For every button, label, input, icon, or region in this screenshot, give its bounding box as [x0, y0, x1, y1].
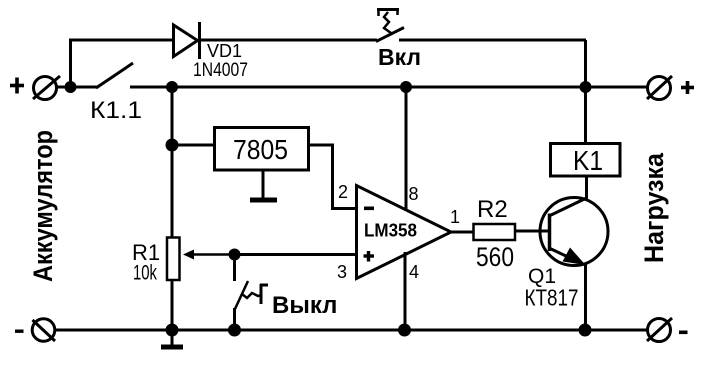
node emitter rail — [579, 324, 592, 337]
svg-text:K1: K1 — [573, 145, 603, 176]
wire right riser down to + rail — [584, 40, 587, 87]
label + right — [686, 81, 690, 94]
svg-text:10k: 10k — [133, 262, 157, 285]
resistor R2 — [474, 224, 516, 240]
svg-text:3: 3 — [337, 262, 347, 282]
svg-text:Вкл: Вкл — [378, 44, 421, 70]
svg-text:2: 2 — [338, 182, 348, 202]
svg-text:Выкл: Выкл — [272, 292, 337, 319]
svg-text:8: 8 — [409, 184, 419, 204]
svg-text:К1.1: К1.1 — [90, 97, 142, 124]
node left column — [166, 81, 178, 93]
svg-text:7805: 7805 — [233, 134, 288, 165]
node at left terminal — [65, 81, 77, 93]
ground (bottom) — [161, 330, 183, 347]
ground (7805) — [250, 170, 277, 200]
potentiometer R1 — [167, 238, 234, 281]
wire top-left vertical riser — [69, 40, 72, 87]
wire + rail to relay — [584, 87, 587, 144]
terminal - right — [647, 318, 672, 342]
node op-amp supply — [400, 81, 412, 93]
node 7805 input — [166, 139, 179, 152]
diode VD1 — [174, 22, 200, 59]
wire emitter to bottom rail — [584, 263, 587, 330]
svg-text:Нагрузка: Нагрузка — [639, 152, 669, 263]
relay coil K1 — [551, 144, 621, 177]
wire button to right riser — [399, 39, 586, 42]
svg-text:1: 1 — [450, 207, 460, 227]
svg-text:R2: R2 — [477, 196, 508, 223]
wire to 7805 input — [172, 144, 214, 147]
terminal + left — [33, 76, 60, 100]
terminal + right — [647, 76, 672, 100]
label - left — [15, 330, 24, 333]
wire diode rail left — [69, 39, 174, 42]
node relay branch — [580, 81, 592, 93]
terminal - left — [32, 319, 55, 342]
wire left column upper — [171, 87, 174, 238]
switch contact K1.1 — [96, 63, 133, 88]
wire pin 4 to bottom rail — [404, 252, 407, 330]
svg-text:1N4007: 1N4007 — [193, 60, 248, 81]
wire collector to relay — [585, 175, 588, 198]
wire pin 3 input — [235, 253, 357, 256]
wire - rail — [55, 329, 648, 332]
pushbutton Вкл — [376, 9, 404, 42]
node op-amp pin4 rail — [398, 324, 411, 337]
svg-text:КТ817: КТ817 — [525, 285, 579, 311]
svg-text:4: 4 — [409, 262, 419, 282]
node ground junction — [166, 324, 179, 337]
pushbutton Выкл — [235, 254, 269, 330]
label + left — [15, 78, 19, 94]
wire 7805 output — [309, 145, 357, 209]
label - right — [679, 331, 688, 335]
svg-text:LM358: LM358 — [364, 221, 417, 241]
transistor Q1 — [540, 198, 608, 266]
wire diode to button — [199, 39, 377, 42]
wire pin 8 supply — [405, 87, 408, 211]
wire op-amp output — [450, 231, 474, 234]
svg-text:VD1: VD1 — [207, 41, 242, 61]
node Выкл bottom — [228, 324, 241, 337]
op-amp U1 LM358 — [357, 186, 452, 279]
svg-text:560: 560 — [476, 242, 514, 272]
wire R2 to base — [515, 230, 550, 233]
wire + rail — [57, 86, 97, 89]
regulator 7805 — [215, 128, 309, 171]
node wiper junction — [229, 249, 241, 261]
svg-text:Аккумулятор: Аккумулятор — [28, 130, 58, 282]
wire R1 to bottom rail — [171, 281, 174, 330]
